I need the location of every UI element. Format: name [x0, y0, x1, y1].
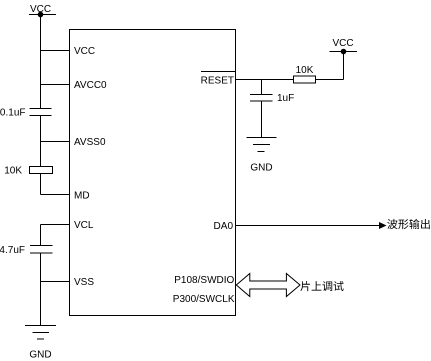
svg-text:P108/SWDIO: P108/SWDIO [174, 275, 234, 286]
svg-text:4.7uF: 4.7uF [0, 245, 25, 256]
svg-text:AVSS0: AVSS0 [74, 137, 106, 148]
svg-text:VCC: VCC [30, 4, 51, 15]
svg-text:RESET: RESET [201, 75, 234, 86]
svg-text:P300/SWCLK: P300/SWCLK [173, 294, 235, 305]
svg-text:GND: GND [29, 349, 51, 360]
svg-text:VCC: VCC [333, 38, 354, 49]
svg-text:0.1uF: 0.1uF [0, 108, 26, 119]
svg-text:10K: 10K [4, 166, 22, 177]
svg-text:AVCC0: AVCC0 [74, 80, 107, 91]
svg-text:VSS: VSS [74, 277, 94, 288]
svg-text:GND: GND [250, 162, 272, 173]
svg-text:VCC: VCC [74, 46, 95, 57]
svg-text:10K: 10K [296, 65, 314, 76]
svg-text:DA0: DA0 [214, 221, 234, 232]
svg-text:1uF: 1uF [277, 93, 294, 104]
svg-text:MD: MD [74, 191, 90, 202]
svg-text:VCL: VCL [74, 220, 94, 231]
